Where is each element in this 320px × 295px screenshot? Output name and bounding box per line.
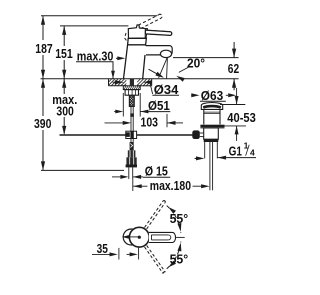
svg-text:103: 103 bbox=[141, 115, 159, 130]
svg-text:300: 300 bbox=[56, 103, 73, 118]
svg-text:187: 187 bbox=[35, 41, 52, 56]
svg-text:max.180: max.180 bbox=[150, 178, 191, 193]
svg-text:62: 62 bbox=[228, 61, 239, 76]
svg-text:Ø34: Ø34 bbox=[154, 82, 179, 97]
svg-text:151: 151 bbox=[55, 46, 73, 61]
svg-text:Ø 15: Ø 15 bbox=[145, 164, 168, 179]
svg-text:Ø51: Ø51 bbox=[148, 98, 170, 113]
svg-text:390: 390 bbox=[34, 116, 51, 131]
svg-text:55°: 55° bbox=[170, 251, 189, 266]
svg-text:55°: 55° bbox=[170, 211, 189, 226]
svg-text:G1: G1 bbox=[229, 143, 242, 158]
svg-text:35: 35 bbox=[97, 241, 108, 256]
svg-text:40-53: 40-53 bbox=[227, 110, 256, 125]
svg-text:4: 4 bbox=[250, 148, 255, 158]
svg-text:20°: 20° bbox=[187, 56, 205, 71]
svg-text:max.30: max.30 bbox=[77, 48, 114, 63]
